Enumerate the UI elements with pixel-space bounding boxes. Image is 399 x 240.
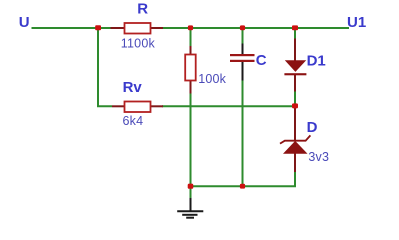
wire left vertical from node at x=98 down to Rv branch [98,28,112,106]
resistor R2 100k leads [190,46,192,56]
zener D bottom lead [294,154,296,173]
resistor R1 leads [111,27,126,29]
svg-text:R: R [137,1,148,18]
diode D1 triangle [285,60,306,72]
junction node top rail diode D1 (x=295) [292,25,298,30]
wire ground stem green part [190,186,192,199]
svg-text:3v3: 3v3 [308,150,329,164]
svg-text:U1: U1 [347,14,366,31]
svg-text:D1: D1 [307,52,326,69]
resistor 100k body [185,55,196,81]
zener D triangle [283,141,308,154]
wire bottom rail [190,185,297,187]
resistor R body [125,23,151,34]
svg-text:C: C [256,52,267,69]
zener D cathode bar with ticks [280,135,310,143]
svg-text:Rv: Rv [123,79,143,96]
zener D top lead [294,108,296,141]
capacitor C plates [230,54,255,56]
svg-text:U: U [19,14,30,31]
resistor Rv body [125,102,151,113]
wire diode vertical (x=295) green parts [294,28,296,40]
svg-text:1100k: 1100k [121,37,156,51]
svg-text:D: D [307,119,318,136]
diode D1 leads [294,39,296,62]
junction node Rv branch to diode line (x=295,y=106) [292,103,298,108]
wire Rv branch horizontal to diode line [162,105,295,107]
junction node on top rail at left (x=98) [95,25,101,30]
junction node top rail capacitor (x=242.5) [240,25,245,30]
svg-text:6k4: 6k4 [123,114,144,128]
resistor Rv leads [112,105,125,107]
svg-text:100k: 100k [198,72,226,86]
junction node top rail 100k (x=190.5) [188,25,193,30]
junction node bottom rail capacitor (x=242.5) [240,184,245,189]
wire top rail U to U1 [32,27,350,29]
wire 100k vertical (x=190.5) top and bottom green parts [190,28,192,47]
ground [177,198,203,218]
junction node bottom rail ground (x=190.5) [188,184,194,189]
wire capacitor vertical (x=242.5) green parts [242,28,244,45]
diode D1 cathode bar [284,73,306,75]
capacitor C leads (black) [242,44,244,55]
